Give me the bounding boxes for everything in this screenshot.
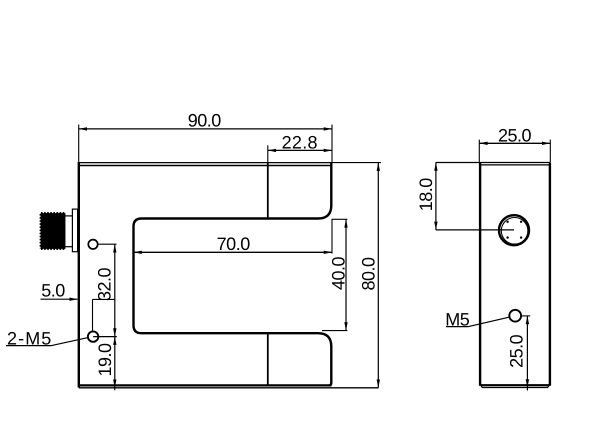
svg-text:M5: M5 <box>445 309 469 329</box>
svg-text:2-M5: 2-M5 <box>7 328 52 348</box>
svg-text:25.0: 25.0 <box>506 334 526 368</box>
svg-text:5.0: 5.0 <box>41 281 65 301</box>
svg-text:80.0: 80.0 <box>359 257 379 291</box>
svg-text:70.0: 70.0 <box>217 234 251 254</box>
svg-text:32.0: 32.0 <box>95 268 115 302</box>
svg-text:19.0: 19.0 <box>95 343 115 377</box>
svg-text:22.8: 22.8 <box>282 133 318 153</box>
svg-text:90.0: 90.0 <box>188 110 222 130</box>
svg-text:40.0: 40.0 <box>329 257 349 291</box>
svg-text:25.0: 25.0 <box>498 126 532 146</box>
svg-text:18.0: 18.0 <box>416 178 436 212</box>
